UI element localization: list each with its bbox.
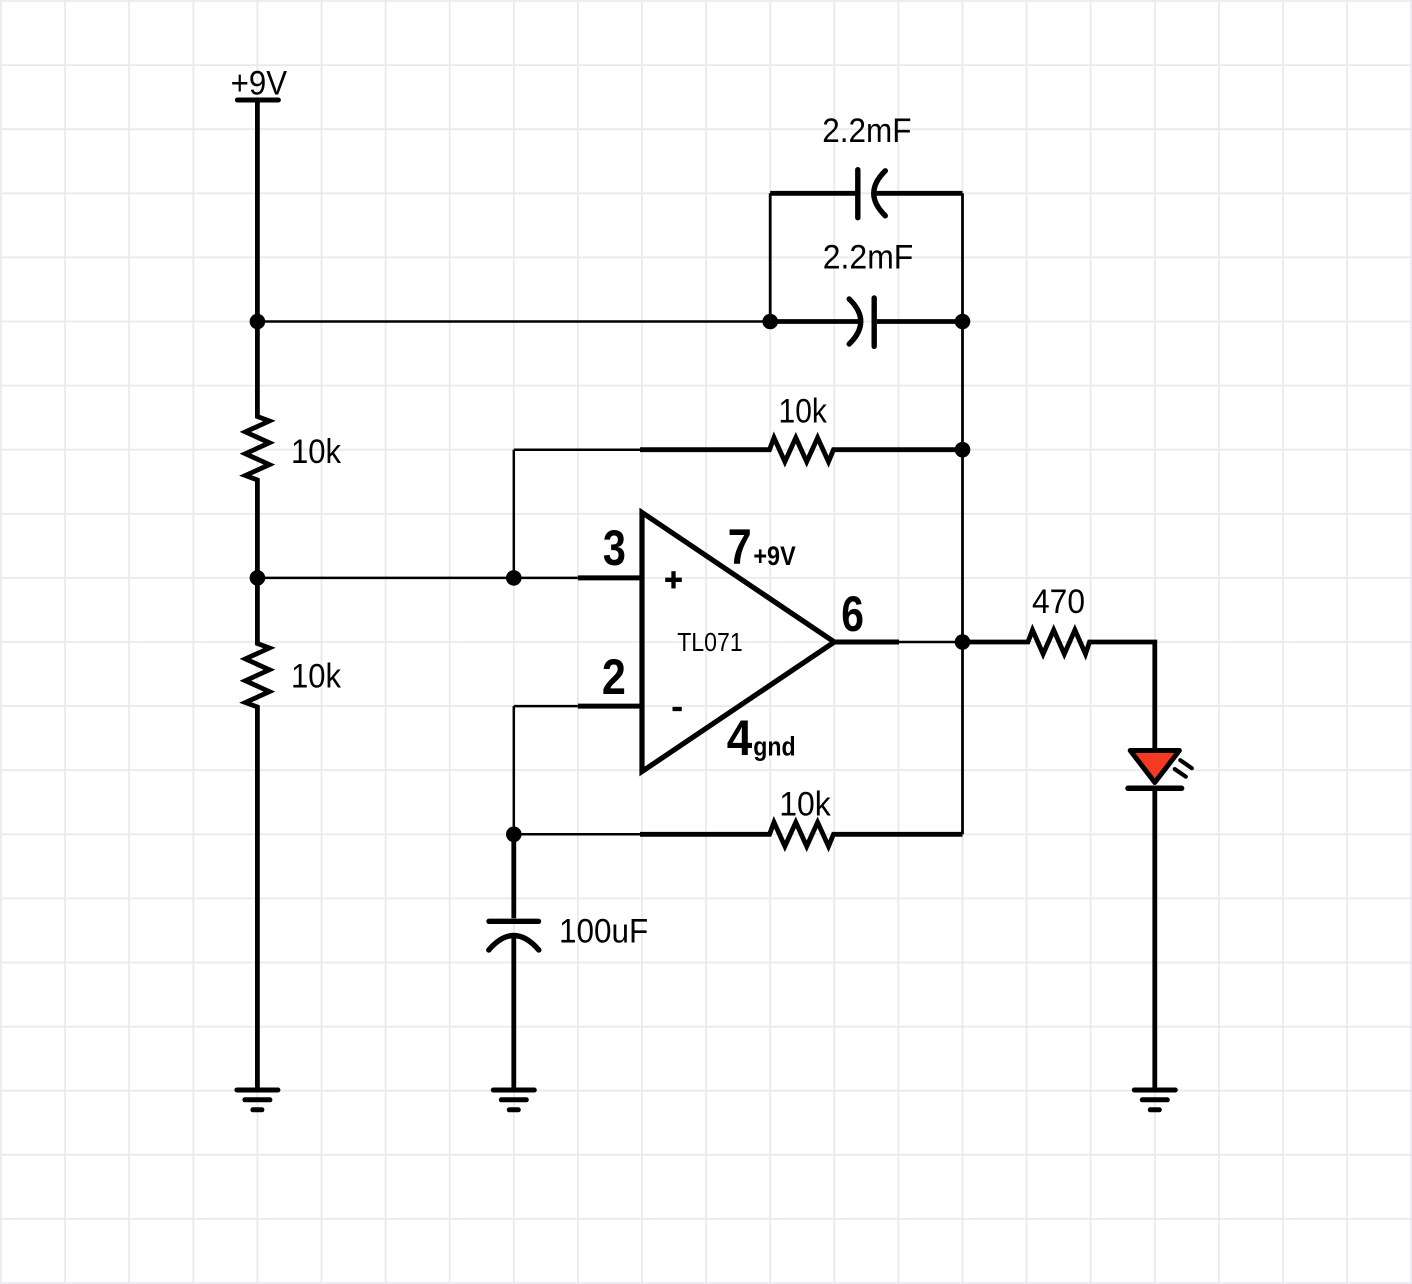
svg-text:TL071: TL071 xyxy=(677,627,743,657)
svg-text:2.2mF: 2.2mF xyxy=(822,112,911,150)
svg-text:2.2mF: 2.2mF xyxy=(823,238,914,276)
svg-text:7: 7 xyxy=(728,519,752,575)
svg-text:10k: 10k xyxy=(291,433,342,471)
svg-text:10k: 10k xyxy=(779,392,828,430)
svg-text:2: 2 xyxy=(602,649,626,705)
svg-text:+9V: +9V xyxy=(231,64,288,102)
svg-text:470: 470 xyxy=(1032,583,1085,621)
svg-text:6: 6 xyxy=(841,586,864,642)
svg-text:10k: 10k xyxy=(779,786,831,824)
svg-text:3: 3 xyxy=(603,520,626,576)
svg-text:10k: 10k xyxy=(291,658,342,696)
svg-text:gnd: gnd xyxy=(753,731,795,761)
svg-text:100uF: 100uF xyxy=(559,913,648,951)
svg-text:4: 4 xyxy=(727,710,753,766)
svg-text:+9V: +9V xyxy=(753,541,795,571)
